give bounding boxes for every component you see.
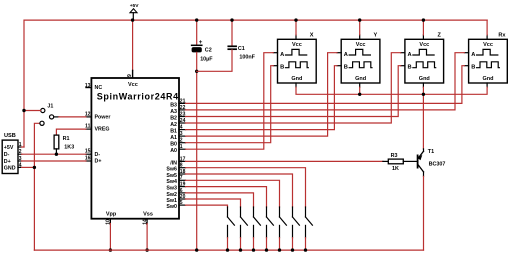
pin 12 Power (86, 116, 92, 118)
wire /IN to R3 (186, 160, 383, 162)
svg-text:A1: A1 (170, 135, 177, 141)
svg-text:D-: D- (95, 152, 101, 158)
svg-text:Power: Power (95, 114, 111, 120)
svg-text:100nF: 100nF (239, 55, 255, 61)
svg-text:Sw4: Sw4 (166, 179, 177, 185)
wire Sw0 to switch 1 (186, 205, 228, 207)
svg-text:1K: 1K (392, 166, 399, 172)
wire chip Vcc to rail (132, 20, 134, 78)
wire +5V to J1 pin1 (24, 110, 41, 112)
wire gnd vertical J1 to bottom rail (34, 123, 39, 250)
node junction rail/Vcc (131, 18, 134, 21)
svg-text:7: 7 (180, 175, 183, 181)
svg-text:A0: A0 (170, 148, 177, 154)
svg-text:J1: J1 (47, 104, 53, 110)
wire B1 to Y B (186, 66, 338, 130)
svg-text:D+: D+ (95, 159, 102, 165)
transistor T1 BC307 (418, 149, 446, 177)
wire Z Vcc (422, 20, 424, 35)
switch S3 (254, 207, 261, 238)
svg-text:Sw5: Sw5 (166, 173, 177, 179)
svg-text:Sw6: Sw6 (166, 167, 177, 173)
wire C2 gnd down to bottom rail (196, 71, 198, 250)
svg-text:B2: B2 (170, 115, 177, 121)
svg-text:1K3: 1K3 (64, 144, 74, 150)
svg-text:D+: D+ (4, 159, 11, 165)
switch S5 (280, 207, 287, 238)
svg-text:USB: USB (4, 133, 16, 139)
svg-text:+5V: +5V (130, 3, 140, 9)
svg-text:Vss: Vss (143, 211, 153, 217)
svg-text:+5V: +5V (4, 145, 14, 151)
node junction J1/+5V (22, 109, 25, 112)
wire Sw2 to switch 3 (186, 193, 254, 207)
wire B0 to X B (186, 66, 274, 143)
svg-text:Sw0: Sw0 (166, 204, 177, 210)
wire A1 to Y A (186, 53, 338, 136)
svg-text:3: 3 (180, 131, 183, 137)
resistor R3 1K (383, 153, 418, 172)
svg-text:17: 17 (180, 156, 186, 162)
wire Y Vcc (359, 20, 361, 35)
capacitor C2 10uF (192, 20, 214, 71)
svg-text:GND: GND (4, 166, 16, 172)
svg-text:C2: C2 (205, 47, 212, 53)
wire B3 to Rx B (186, 66, 465, 104)
wire switch drops to rail (228, 238, 306, 250)
power +5V symbol (130, 3, 140, 20)
svg-text:R1: R1 (63, 136, 70, 142)
svg-text:A2: A2 (170, 122, 177, 128)
wire X Vcc (295, 20, 297, 35)
pin 13 NC (86, 87, 92, 89)
svg-text:10µF: 10µF (200, 57, 213, 63)
switch S6 (293, 207, 300, 238)
svg-text:D-: D- (4, 152, 10, 158)
wire A3 to Rx A (186, 53, 465, 110)
svg-text:6: 6 (180, 188, 183, 194)
svg-text:13: 13 (85, 83, 91, 89)
svg-text:18: 18 (180, 169, 186, 175)
wire Sw1 to switch 2 (186, 199, 241, 207)
node junction Y gnd (358, 93, 361, 96)
capacitor C1 100nF (197, 20, 256, 71)
wire D- USB to chip (22, 153, 86, 155)
svg-text:24: 24 (180, 118, 186, 124)
svg-text:B0: B0 (170, 142, 177, 148)
svg-text:22: 22 (180, 105, 186, 111)
wire A2 to Z A (186, 53, 401, 123)
encoder X (273, 33, 316, 88)
svg-text:20: 20 (180, 194, 186, 200)
node junction C2/C1 gnd (195, 70, 198, 73)
wire Sw6 to switch 7 (186, 168, 306, 207)
svg-text:Sw1: Sw1 (166, 198, 177, 204)
wire D+ USB to chip (22, 160, 86, 162)
svg-text:SpinWarrior24R4: SpinWarrior24R4 (97, 92, 179, 102)
svg-text:NC: NC (95, 85, 103, 91)
svg-text:21: 21 (180, 98, 186, 104)
wire Sw3 to switch 4 (186, 187, 267, 207)
svg-text:X: X (310, 33, 314, 39)
IC SpinWarrior24R4 (85, 74, 179, 225)
chip right pins stubs+numbers+labels (166, 98, 185, 210)
wire USB +5V to left vertical (22, 146, 24, 148)
svg-text:Z: Z (437, 33, 441, 39)
wire B2 to Z B (186, 66, 401, 117)
encoder Rx (464, 33, 507, 88)
svg-text:T1: T1 (428, 149, 434, 155)
wire Y gnd (359, 87, 361, 94)
wire Z gnd down to transistor emitter (422, 87, 424, 149)
node junction X Vcc (294, 18, 297, 21)
svg-text:A3: A3 (170, 109, 177, 115)
wire bottom gnd rail (34, 249, 423, 251)
switch S2 (241, 207, 248, 238)
node junction Z gnd (422, 93, 425, 96)
node junction Y Vcc (358, 18, 361, 21)
wire Vss to rail (145, 224, 148, 252)
svg-text:/IN: /IN (170, 160, 177, 166)
svg-text:2: 2 (180, 138, 183, 144)
svg-text:9: 9 (127, 74, 133, 77)
USB connector (2, 133, 22, 174)
svg-text:19: 19 (180, 182, 186, 188)
svg-text:C1: C1 (238, 46, 245, 52)
svg-text:BC307: BC307 (429, 161, 446, 167)
svg-text:Rx: Rx (498, 33, 506, 39)
svg-text:R3: R3 (391, 153, 398, 159)
svg-text:VREG: VREG (95, 127, 110, 133)
wire top +5V rail and left vertical (24, 20, 487, 147)
wire T1 collector to bottom rail (423, 176, 425, 250)
wire Rx Vcc from rail corner (486, 20, 488, 35)
pin 10 Vpp bottom (109, 219, 111, 224)
wire Vpp to rail (109, 224, 112, 252)
pin 15 D- (86, 153, 92, 155)
wire Sw4 to switch 5 (186, 180, 280, 207)
pin 14 Vss bottom (146, 219, 148, 224)
pin 11 VREG (86, 128, 92, 130)
svg-text:Sw3: Sw3 (166, 186, 177, 192)
node junction C2 rail (195, 18, 198, 21)
switch S4 (267, 207, 274, 238)
svg-text:8: 8 (180, 163, 183, 169)
wire USB GND to gnd vertical (22, 166, 35, 168)
svg-text:Y: Y (373, 33, 377, 39)
svg-text:5: 5 (180, 200, 183, 206)
svg-text:B3: B3 (170, 102, 177, 108)
svg-text:Vpp: Vpp (106, 211, 117, 217)
wire J1 pin2 to Power (54, 116, 86, 118)
svg-text:23: 23 (180, 111, 186, 117)
resistor R1 1K3 (54, 129, 86, 154)
node junction gnd (33, 166, 36, 169)
pin 16 D+ (86, 160, 92, 162)
encoder Z (401, 33, 444, 88)
node junction C1 rail (230, 18, 233, 21)
svg-text:Vcc: Vcc (128, 82, 138, 88)
encoder Y (337, 33, 380, 88)
svg-text:B1: B1 (170, 129, 177, 135)
svg-text:4: 4 (180, 125, 183, 131)
node junction R1/D- (55, 153, 58, 156)
switch S1 (228, 207, 235, 238)
wire Sw5 to switch 6 (186, 174, 293, 207)
svg-text:Sw2: Sw2 (166, 192, 177, 198)
jumper J1 (40, 104, 54, 126)
svg-text:1: 1 (180, 144, 183, 150)
wire encoder gnd rail (296, 87, 487, 94)
node junction Z Vcc (422, 18, 425, 21)
wire A0 to X A (186, 53, 274, 150)
node junctions bottom rail (195, 248, 307, 251)
switch S7 (306, 207, 313, 238)
